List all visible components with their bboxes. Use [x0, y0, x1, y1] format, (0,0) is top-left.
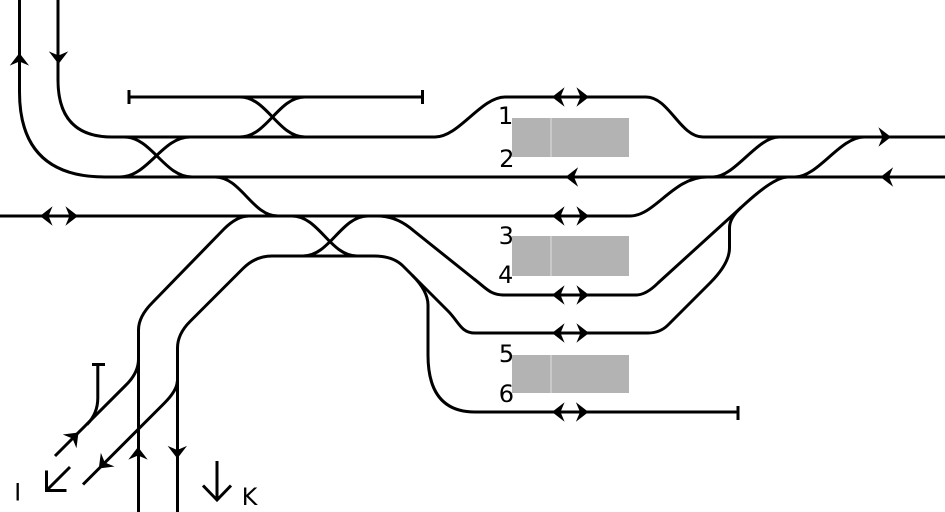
- wire: line A (track 1 main) from second vertical to x=435: [58, 0, 435, 137]
- track 4: [502, 294, 637, 297]
- left arrow track 2 mid: [566, 167, 579, 186]
- siding track with end ticks: [129, 96, 423, 99]
- double arrow line C mid: [552, 206, 565, 225]
- right arrow line A: [878, 127, 891, 146]
- label 5: [501, 345, 512, 363]
- platform 3/4: [512, 236, 629, 276]
- label 6: [500, 384, 512, 402]
- crossover siding/line A descending: [240, 97, 305, 137]
- wire: line C (track 3) with right-end ascender into line B: [0, 177, 707, 216]
- left arrow track 2 right: [881, 167, 894, 186]
- arrow down on U2: [49, 51, 68, 64]
- crossover S2 line B to line A: [795, 137, 864, 177]
- track 5 right connector up into track4 diagonal: [648, 208, 741, 334]
- platform 1/2: [512, 118, 629, 157]
- I direction arrow (open): [47, 467, 71, 491]
- connector D1: line C down to vertical V1: [139, 216, 250, 512]
- K direction arrow (open): [203, 461, 231, 500]
- double arrow line C left: [40, 206, 53, 225]
- arrow down on V2: [168, 446, 187, 459]
- connector line B to line C: [215, 177, 278, 216]
- wire: line B (track 2) from top-left vertical down to right edge: [20, 0, 945, 177]
- arrow up on V1: [128, 447, 147, 460]
- connector line C to track 4: [378, 216, 504, 295]
- tick right: [421, 90, 424, 104]
- track 4 right connector up to line B: [636, 177, 788, 295]
- arrow on branch c: [92, 453, 115, 476]
- crossing C/D descending: [292, 216, 357, 256]
- platform 5/6: [512, 355, 629, 393]
- connector D2: segment D down to vertical V2: [178, 256, 375, 512]
- crossover S1 line B to line A: [713, 137, 779, 177]
- label 2: [501, 149, 512, 167]
- connector segment D to track 5: [374, 256, 648, 333]
- wire: track 1 riser, platform track, and descender back to line A: [435, 97, 945, 137]
- label I: [17, 483, 19, 501]
- crossover siding/line A ascending: [240, 97, 305, 137]
- branch to vertical x=428 and track 6 with right tick: [412, 275, 738, 412]
- label 1: [501, 107, 512, 125]
- T-stub curve: [87, 365, 98, 425]
- crossover A/B ascending: [120, 137, 190, 177]
- T-stub tick: [92, 363, 105, 366]
- double arrow track 4: [552, 285, 565, 304]
- crossover A/B descending: [124, 137, 192, 177]
- crossing C/D ascending: [303, 216, 368, 256]
- branch b off V1 going down-left: [55, 359, 139, 456]
- branch c off V2 going down-left: [83, 381, 177, 485]
- double arrow track 1: [552, 87, 565, 106]
- label K: [244, 488, 258, 506]
- tick track 6: [737, 406, 740, 420]
- double arrow track 5: [552, 323, 565, 342]
- label 4: [499, 266, 512, 284]
- tick left: [128, 90, 131, 104]
- label 3: [500, 226, 512, 244]
- arrow up on U1: [10, 53, 29, 66]
- double arrow track 6: [552, 402, 565, 421]
- arrow on branch b: [63, 426, 86, 449]
